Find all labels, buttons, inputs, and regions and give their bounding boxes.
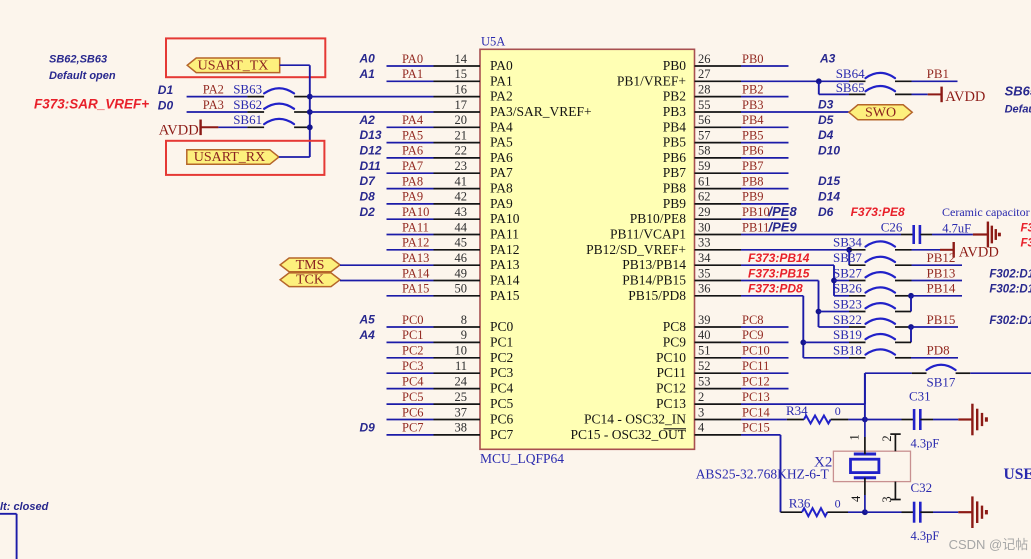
pin 56 PB4 right <box>663 113 741 134</box>
svg-text:PA8: PA8 <box>490 181 513 196</box>
svg-text:56: 56 <box>698 113 711 127</box>
wire net PC6 left row <box>387 405 434 419</box>
wire net PB10/PE8 row <box>741 204 797 219</box>
port USART_RX <box>187 150 279 165</box>
label D14 <box>818 190 840 204</box>
svg-text:D4: D4 <box>818 128 834 142</box>
svg-text:4: 4 <box>698 421 705 435</box>
pin 41 PA8 left <box>434 174 514 195</box>
pin 57 PB5 right <box>663 128 741 149</box>
capacitor C32 4.3pF <box>911 480 940 543</box>
wire net PB9 right row <box>741 190 789 204</box>
svg-text:PB10: PB10 <box>742 205 770 219</box>
wire R36 to node <box>848 511 865 513</box>
svg-text:F373:SAR_VREF+: F373:SAR_VREF+ <box>34 97 149 112</box>
svg-text:33: 33 <box>698 236 711 250</box>
wire net F373:PD8 row <box>741 282 803 296</box>
wire net PB4 right row <box>741 113 789 127</box>
svg-text:PB4: PB4 <box>742 113 764 127</box>
svg-text:PB4: PB4 <box>663 119 687 134</box>
svg-text:AVDD: AVDD <box>159 123 199 139</box>
label D7 <box>360 174 377 188</box>
wire net PA5 left row <box>387 128 434 142</box>
pin 15 PA1 left <box>434 67 513 88</box>
svg-text:PC5: PC5 <box>490 396 514 411</box>
wire net PC9 right row <box>741 328 789 342</box>
wire net PA10 left row <box>387 205 434 219</box>
svg-text:PC11: PC11 <box>742 359 769 373</box>
label D4 <box>818 128 834 142</box>
wire vertical F373:PB15 down <box>818 281 820 328</box>
svg-text:PB5: PB5 <box>742 128 764 142</box>
svg-text:29: 29 <box>698 205 711 219</box>
label F302 right edge 2 <box>989 284 1031 296</box>
label A4 <box>359 328 376 342</box>
svg-text:15: 15 <box>455 67 468 81</box>
solder bridge SB22 <box>819 312 912 327</box>
pin 55 PB3 right <box>663 98 741 119</box>
svg-text:SWO: SWO <box>865 105 896 120</box>
junction dot SB61 row <box>307 124 313 130</box>
wire net PA12 left row <box>387 236 434 250</box>
svg-text:14: 14 <box>455 52 468 66</box>
svg-text:SB23: SB23 <box>833 296 862 311</box>
solder bridge SB61 <box>218 112 309 127</box>
wire net PC10 right row <box>741 344 789 358</box>
svg-text:45: 45 <box>455 236 468 250</box>
label D12 <box>360 144 382 158</box>
svg-text:MCU_LQFP64: MCU_LQFP64 <box>480 451 564 466</box>
pin 30 PB11/VCAP1 right <box>610 220 741 241</box>
label A3 <box>819 52 836 66</box>
svg-text:PC14: PC14 <box>742 405 771 419</box>
svg-text:PA2: PA2 <box>490 89 513 104</box>
svg-text:SB63: SB63 <box>233 81 262 96</box>
svg-text:4.7uF: 4.7uF <box>942 222 971 236</box>
svg-text:43: 43 <box>455 205 468 219</box>
svg-text:R36: R36 <box>789 496 811 511</box>
svg-text:PC1: PC1 <box>490 334 513 349</box>
pin 17 PA3/SAR_VREF+ left <box>434 98 592 119</box>
svg-text:55: 55 <box>698 98 711 112</box>
svg-text:PA1: PA1 <box>402 67 423 81</box>
svg-text:/PE8: /PE8 <box>768 204 798 219</box>
svg-text:35: 35 <box>698 266 711 280</box>
pin 28 PB2 right <box>663 82 741 103</box>
svg-text:SB62: SB62 <box>233 97 262 112</box>
wire net PA1 left row <box>387 67 434 81</box>
resistor R36 0 <box>781 496 849 517</box>
svg-text:62: 62 <box>698 190 711 204</box>
pin 46 PA13 left <box>434 251 520 272</box>
wire vertical SB64 to SB65 <box>818 81 820 94</box>
solder bridge SB34 <box>833 235 940 250</box>
svg-text:PB15/PD8: PB15/PD8 <box>628 288 686 303</box>
svg-text:PA10: PA10 <box>402 205 429 219</box>
svg-text:PB1: PB1 <box>927 66 949 81</box>
pin 36 PB15/PD8 right <box>628 282 741 303</box>
svg-text:10: 10 <box>455 344 468 358</box>
pin 44 PA11 left <box>434 220 520 241</box>
svg-text:PA15: PA15 <box>402 282 429 296</box>
junction dot OSC32_OUT node <box>862 509 868 515</box>
svg-text:CSDN @记帖: CSDN @记帖 <box>949 537 1029 552</box>
wire vertical SB23 up to PB14 <box>910 296 912 312</box>
solder bridge SB17 <box>912 365 970 390</box>
solder bridge SB23 <box>819 296 912 311</box>
svg-text:2: 2 <box>698 390 704 404</box>
svg-text:0: 0 <box>835 497 841 511</box>
svg-text:50: 50 <box>455 282 468 296</box>
svg-text:PC0: PC0 <box>490 319 514 334</box>
svg-text:38: 38 <box>455 421 468 435</box>
svg-text:/PE9: /PE9 <box>768 219 798 234</box>
svg-text:PA5: PA5 <box>402 128 423 142</box>
wire SB17 to right edge <box>970 372 1031 374</box>
wire C26 to ground <box>920 234 988 236</box>
wire net PA7 left row <box>387 159 434 173</box>
svg-text:20: 20 <box>455 113 468 127</box>
svg-text:D10: D10 <box>818 144 840 158</box>
svg-text:4.3pF: 4.3pF <box>911 529 940 543</box>
svg-text:PA13: PA13 <box>490 257 520 272</box>
wire net PC7 left row <box>387 421 434 435</box>
svg-text:PC10: PC10 <box>656 350 686 365</box>
svg-text:D9: D9 <box>360 421 376 435</box>
wire net PB2 right row <box>741 82 789 96</box>
label D15 <box>818 174 840 188</box>
label F302 right edge 1 <box>989 268 1031 280</box>
wire net PA9 left row <box>387 190 434 204</box>
wire net PB7 right row <box>741 159 789 173</box>
svg-text:PB7: PB7 <box>742 159 764 173</box>
svg-text:PB13: PB13 <box>927 265 956 280</box>
svg-text:PA3/SAR_VREF+: PA3/SAR_VREF+ <box>490 104 592 119</box>
label D13 <box>360 128 382 142</box>
ground symbol C32 <box>972 496 986 528</box>
svg-text:21: 21 <box>455 128 468 142</box>
wire net PC5 left row <box>387 390 434 404</box>
svg-text:F373:PB14: F373:PB14 <box>748 251 810 265</box>
svg-text:PB6: PB6 <box>663 150 687 165</box>
svg-text:PC12: PC12 <box>742 374 770 388</box>
pin 24 PC4 left <box>434 374 514 395</box>
svg-text:52: 52 <box>698 359 711 373</box>
svg-text:SB62,SB63: SB62,SB63 <box>49 53 107 65</box>
svg-text:SB22: SB22 <box>833 312 862 327</box>
svg-text:PA14: PA14 <box>402 266 430 280</box>
svg-text:39: 39 <box>698 313 711 327</box>
svg-text:PB7: PB7 <box>663 165 687 180</box>
solder bridge SB63 <box>187 81 310 96</box>
crystal pin 4 <box>849 478 865 512</box>
svg-text:Defaul: Defaul <box>1005 104 1031 116</box>
svg-text:49: 49 <box>455 266 468 280</box>
svg-text:PC2: PC2 <box>402 344 424 358</box>
pin 35 PB14/PB15 right <box>622 266 741 287</box>
svg-text:PB11/VCAP1: PB11/VCAP1 <box>610 227 686 242</box>
wire vertical F373:PB14 down <box>833 265 835 296</box>
port USART_TX <box>187 58 280 73</box>
label D10 <box>818 144 840 158</box>
svg-text:PB14: PB14 <box>927 281 956 296</box>
pin 27 PB1/VREF+ right <box>617 67 741 88</box>
svg-text:TCK: TCK <box>296 273 324 288</box>
svg-text:PB10/PE8: PB10/PE8 <box>630 211 687 226</box>
svg-text:SB65: SB65 <box>1005 83 1031 98</box>
comment USER right edge <box>1004 466 1031 483</box>
wire net PB12 <box>912 250 963 265</box>
junction dot PA2 row <box>307 94 313 100</box>
wire R34 to node <box>848 419 865 421</box>
label D3 <box>818 98 834 112</box>
svg-text:Ceramic capacitor: Ceramic capacitor <box>942 205 1030 219</box>
svg-text:PA6: PA6 <box>490 150 513 165</box>
svg-text:58: 58 <box>698 144 711 158</box>
wire vertical PC15 down to R36 <box>780 435 782 512</box>
wire net PC11 right row <box>741 359 789 373</box>
svg-text:42: 42 <box>455 190 468 204</box>
svg-text:3: 3 <box>698 405 704 419</box>
label PA14 net <box>402 266 430 280</box>
svg-text:PC12: PC12 <box>656 381 686 396</box>
svg-text:24: 24 <box>455 374 468 388</box>
solder bridge SB19 <box>803 327 911 342</box>
wire vertical PC13 node to R34 node <box>864 373 866 419</box>
label A1 <box>359 67 376 81</box>
svg-text:PC7: PC7 <box>402 421 424 435</box>
svg-text:PC11: PC11 <box>656 365 686 380</box>
svg-text:C31: C31 <box>909 388 931 403</box>
svg-text:lt: closed: lt: closed <box>0 501 49 513</box>
svg-text:PA0: PA0 <box>490 58 513 73</box>
svg-text:2: 2 <box>880 435 894 441</box>
wire net PB11/PE9 to C26 <box>741 219 913 234</box>
svg-text:53: 53 <box>698 374 711 388</box>
wire node to C31 <box>865 419 914 421</box>
svg-text:46: 46 <box>455 251 468 265</box>
svg-text:PB3: PB3 <box>742 98 764 112</box>
svg-text:41: 41 <box>455 174 468 188</box>
pin 37 PC6 left <box>434 405 514 426</box>
svg-text:51: 51 <box>698 344 711 358</box>
pin 38 PC7 left <box>434 421 514 442</box>
svg-text:SB17: SB17 <box>927 375 956 390</box>
svg-text:16: 16 <box>455 82 468 96</box>
svg-text:PC8: PC8 <box>663 319 687 334</box>
svg-text:34: 34 <box>698 251 711 265</box>
svg-text:9: 9 <box>461 328 467 342</box>
wire net PC13 row <box>741 390 865 404</box>
svg-text:PA14: PA14 <box>490 273 520 288</box>
svg-text:25: 25 <box>455 390 468 404</box>
junction dot PB14 node <box>908 293 914 299</box>
svg-text:11: 11 <box>455 359 467 373</box>
svg-text:PA0: PA0 <box>402 52 423 66</box>
svg-text:PB15: PB15 <box>927 312 956 327</box>
wire net PC12 right row <box>741 374 789 388</box>
svg-text:PA4: PA4 <box>490 119 513 134</box>
wire net PB14 <box>911 281 962 296</box>
wire SB17 row left <box>865 372 912 374</box>
wire net PB0 right row <box>741 52 789 66</box>
svg-text:36: 36 <box>698 282 711 296</box>
svg-text:PC8: PC8 <box>742 313 764 327</box>
svg-text:PB12/SD_VREF+: PB12/SD_VREF+ <box>586 242 686 257</box>
svg-text:D12: D12 <box>360 144 382 158</box>
svg-text:A3: A3 <box>819 52 836 66</box>
wire USART_TX to bus <box>280 64 310 66</box>
pin 14 PA0 left <box>434 52 514 73</box>
pin 21 PA5 left <box>434 128 514 149</box>
svg-text:SB61: SB61 <box>233 112 262 127</box>
svg-text:PA11: PA11 <box>490 227 519 242</box>
svg-text:3: 3 <box>880 496 894 502</box>
ground symbol C26 <box>988 222 999 248</box>
wire net PA8 left row <box>387 174 434 188</box>
solder bridge SB18 <box>803 343 911 358</box>
junction dot PB1 row <box>816 78 822 84</box>
svg-text:PB9: PB9 <box>742 190 764 204</box>
svg-text:PB6: PB6 <box>742 144 764 158</box>
svg-text:4.3pF: 4.3pF <box>911 437 940 451</box>
svg-text:F373:PD8: F373:PD8 <box>748 282 803 296</box>
svg-text:SB34: SB34 <box>833 235 862 250</box>
svg-text:PC14 - OSC32_IN: PC14 - OSC32_IN <box>584 412 686 427</box>
svg-text:PA5: PA5 <box>490 135 513 150</box>
svg-text:F302:D1: F302:D1 <box>989 284 1031 296</box>
svg-text:PB8: PB8 <box>663 181 687 196</box>
wire net PB15 <box>911 312 958 327</box>
comment SB65 default right edge <box>1005 83 1031 115</box>
watermark CSDN <box>949 537 1029 552</box>
svg-text:SB18: SB18 <box>833 343 862 358</box>
svg-text:8: 8 <box>461 313 467 327</box>
svg-text:SB65: SB65 <box>836 80 865 95</box>
svg-text:C26: C26 <box>881 219 903 234</box>
label A0 <box>359 52 376 66</box>
svg-text:AVDD: AVDD <box>945 89 985 105</box>
pin 43 PA10 left <box>434 205 520 226</box>
pin 34 PB13/PB14 right <box>622 251 741 272</box>
pin 11 PC3 left <box>434 359 514 380</box>
wire net PC2 left row <box>387 344 434 358</box>
wire net F373:PB14 row <box>741 251 834 265</box>
pin 20 PA4 left <box>434 113 514 134</box>
junction dot row33 <box>846 247 852 253</box>
wire vertical F373:PD8 down <box>802 296 804 358</box>
svg-text:PC13: PC13 <box>656 396 686 411</box>
wire net PB5 right row <box>741 128 789 142</box>
svg-text:D7: D7 <box>360 174 377 188</box>
junction dot SB19 row <box>800 340 806 346</box>
power AVDD row33 <box>940 242 999 260</box>
svg-text:D2: D2 <box>360 205 376 219</box>
svg-text:PA9: PA9 <box>402 190 423 204</box>
svg-text:USART_TX: USART_TX <box>198 58 269 73</box>
capacitor C26 4.7uF <box>881 219 971 244</box>
wire TCK to PA14 <box>340 280 434 282</box>
svg-text:U5A: U5A <box>481 35 505 49</box>
svg-text:PB11: PB11 <box>742 220 769 234</box>
svg-text:D14: D14 <box>818 190 840 204</box>
svg-text:PA11: PA11 <box>402 220 429 234</box>
label D9 <box>360 421 376 435</box>
svg-text:D5: D5 <box>818 113 834 127</box>
pin 8 PC0 left <box>434 313 514 334</box>
svg-text:28: 28 <box>698 82 711 96</box>
wire net PC0 left row <box>387 313 434 327</box>
svg-text:PB0: PB0 <box>663 58 687 73</box>
wire net PA4 left row <box>387 113 434 127</box>
svg-text:23: 23 <box>455 159 468 173</box>
svg-text:0: 0 <box>835 404 841 418</box>
svg-text:SB19: SB19 <box>833 327 862 342</box>
svg-text:SB26: SB26 <box>833 281 862 296</box>
label A5 <box>359 313 376 327</box>
pin 40 PC9 right <box>663 328 741 349</box>
wire C32 to ground <box>920 511 972 513</box>
wire net PA0 left row <box>387 52 434 66</box>
svg-text:17: 17 <box>455 98 468 112</box>
svg-text:F373:PE8: F373:PE8 <box>851 205 905 219</box>
pin 16 PA2 left <box>434 82 513 103</box>
svg-text:PB9: PB9 <box>663 196 687 211</box>
svg-text:PB8: PB8 <box>742 174 764 188</box>
junction dot OSC32_IN node <box>862 417 868 423</box>
svg-text:22: 22 <box>455 144 468 158</box>
svg-text:ABS25-32.768KHZ-6-T: ABS25-32.768KHZ-6-T <box>696 466 830 481</box>
svg-text:PC4: PC4 <box>402 374 424 388</box>
svg-text:F37: F37 <box>1021 223 1031 235</box>
svg-text:PC7: PC7 <box>490 427 514 442</box>
wire net PA11 left row <box>387 220 434 234</box>
svg-text:SB27: SB27 <box>833 265 862 280</box>
svg-text:PA12: PA12 <box>402 236 429 250</box>
MCU U5A body MCU_LQFP64 <box>480 35 695 467</box>
svg-text:PC13: PC13 <box>742 390 770 404</box>
label F373 right edge 2 <box>1021 238 1031 250</box>
wire USART_RX to bus <box>279 156 310 158</box>
svg-text:D15: D15 <box>818 174 840 188</box>
solder bridge SB64 <box>836 66 912 81</box>
label D8 <box>360 190 376 204</box>
pin 61 PB8 right <box>663 174 741 195</box>
power AVDD left <box>159 120 219 139</box>
label PA13 net <box>402 251 429 265</box>
svg-text:A5: A5 <box>359 313 376 327</box>
svg-text:D6: D6 <box>818 205 834 219</box>
pin 25 PC5 left <box>434 390 514 411</box>
svg-text:PB12: PB12 <box>927 250 956 265</box>
svg-text:PC3: PC3 <box>490 365 514 380</box>
svg-text:F373:PB15: F373:PB15 <box>748 266 810 280</box>
solder bridge SB62 <box>187 97 310 112</box>
svg-text:TMS: TMS <box>296 258 325 273</box>
wire node to C32 <box>865 511 914 513</box>
wire vertical PC13 up to SB17 <box>864 373 866 404</box>
svg-text:PB2: PB2 <box>742 82 764 96</box>
wire net PB13 <box>912 265 963 280</box>
solder bridge SB26 <box>833 281 911 296</box>
svg-text:PD8: PD8 <box>927 343 950 358</box>
wire net PC4 left row <box>387 374 434 388</box>
pin 53 PC12 right <box>656 374 741 395</box>
pin 58 PB6 right <box>663 144 741 165</box>
svg-text:PB2: PB2 <box>663 89 686 104</box>
svg-text:F37: F37 <box>1021 238 1031 250</box>
wire PA2 row to pin <box>310 96 434 98</box>
